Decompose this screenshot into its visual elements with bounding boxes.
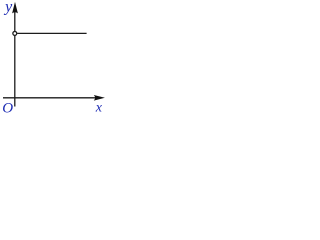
y-axis arrowhead: [12, 2, 18, 14]
svg-text:O: O: [2, 100, 13, 116]
svg-text:y: y: [3, 0, 13, 16]
horizontal ray: [17, 32, 86, 34]
x-axis arrowhead: [94, 95, 105, 101]
x-axis: [3, 97, 101, 99]
y-axis: [14, 8, 16, 107]
open circle endpoint: [13, 31, 17, 35]
svg-text:x: x: [95, 100, 103, 115]
